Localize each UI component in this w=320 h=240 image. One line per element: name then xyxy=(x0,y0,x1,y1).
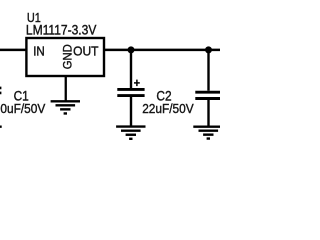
wire from C2 down to ground xyxy=(130,97,132,126)
capacitor C3 plates (rest of symbol off right edge) xyxy=(195,92,222,98)
refdes U1 xyxy=(27,10,41,25)
wire from C3 down to ground xyxy=(207,100,209,126)
wire from rail down to C3 xyxy=(207,50,209,91)
value 22uF/50V xyxy=(142,101,194,116)
wire input wire into IN pin xyxy=(0,49,26,52)
node junction dot at C2 xyxy=(128,46,135,53)
capacitor C1 (partially off left edge) plates xyxy=(0,88,1,93)
svg-text:22uF/50V: 22uF/50V xyxy=(142,101,194,116)
ground below C1 (partially off left edge) xyxy=(0,125,2,127)
pin label OUT xyxy=(73,44,99,58)
pin label GND (rotated) xyxy=(61,44,75,69)
svg-text:LM1117-3.3V: LM1117-3.3V xyxy=(26,23,97,38)
ground below C3 xyxy=(193,127,222,139)
ground below C2 xyxy=(116,127,145,139)
regulator U1 body xyxy=(26,38,104,76)
value LM1117-3.3V xyxy=(26,23,97,38)
wire from rail down to C2 xyxy=(130,50,132,88)
svg-text:OUT: OUT xyxy=(73,44,99,58)
svg-text:10uF/50V: 10uF/50V xyxy=(0,101,45,116)
pin label IN xyxy=(33,44,45,58)
node junction dot at C3 xyxy=(205,46,212,53)
ground below regulator GND pin xyxy=(51,101,80,113)
label C2 xyxy=(156,89,171,104)
wire output rail from OUT pin to right edge xyxy=(105,49,220,52)
capacitor C2 plates xyxy=(117,89,144,95)
capacitor C2 polarity + sign xyxy=(134,80,140,87)
value 10uF/50V (1 cut off at left edge) xyxy=(0,101,45,116)
svg-text:IN: IN xyxy=(33,44,45,58)
label C1 xyxy=(14,89,29,104)
wire GND pin down from box xyxy=(65,77,67,101)
